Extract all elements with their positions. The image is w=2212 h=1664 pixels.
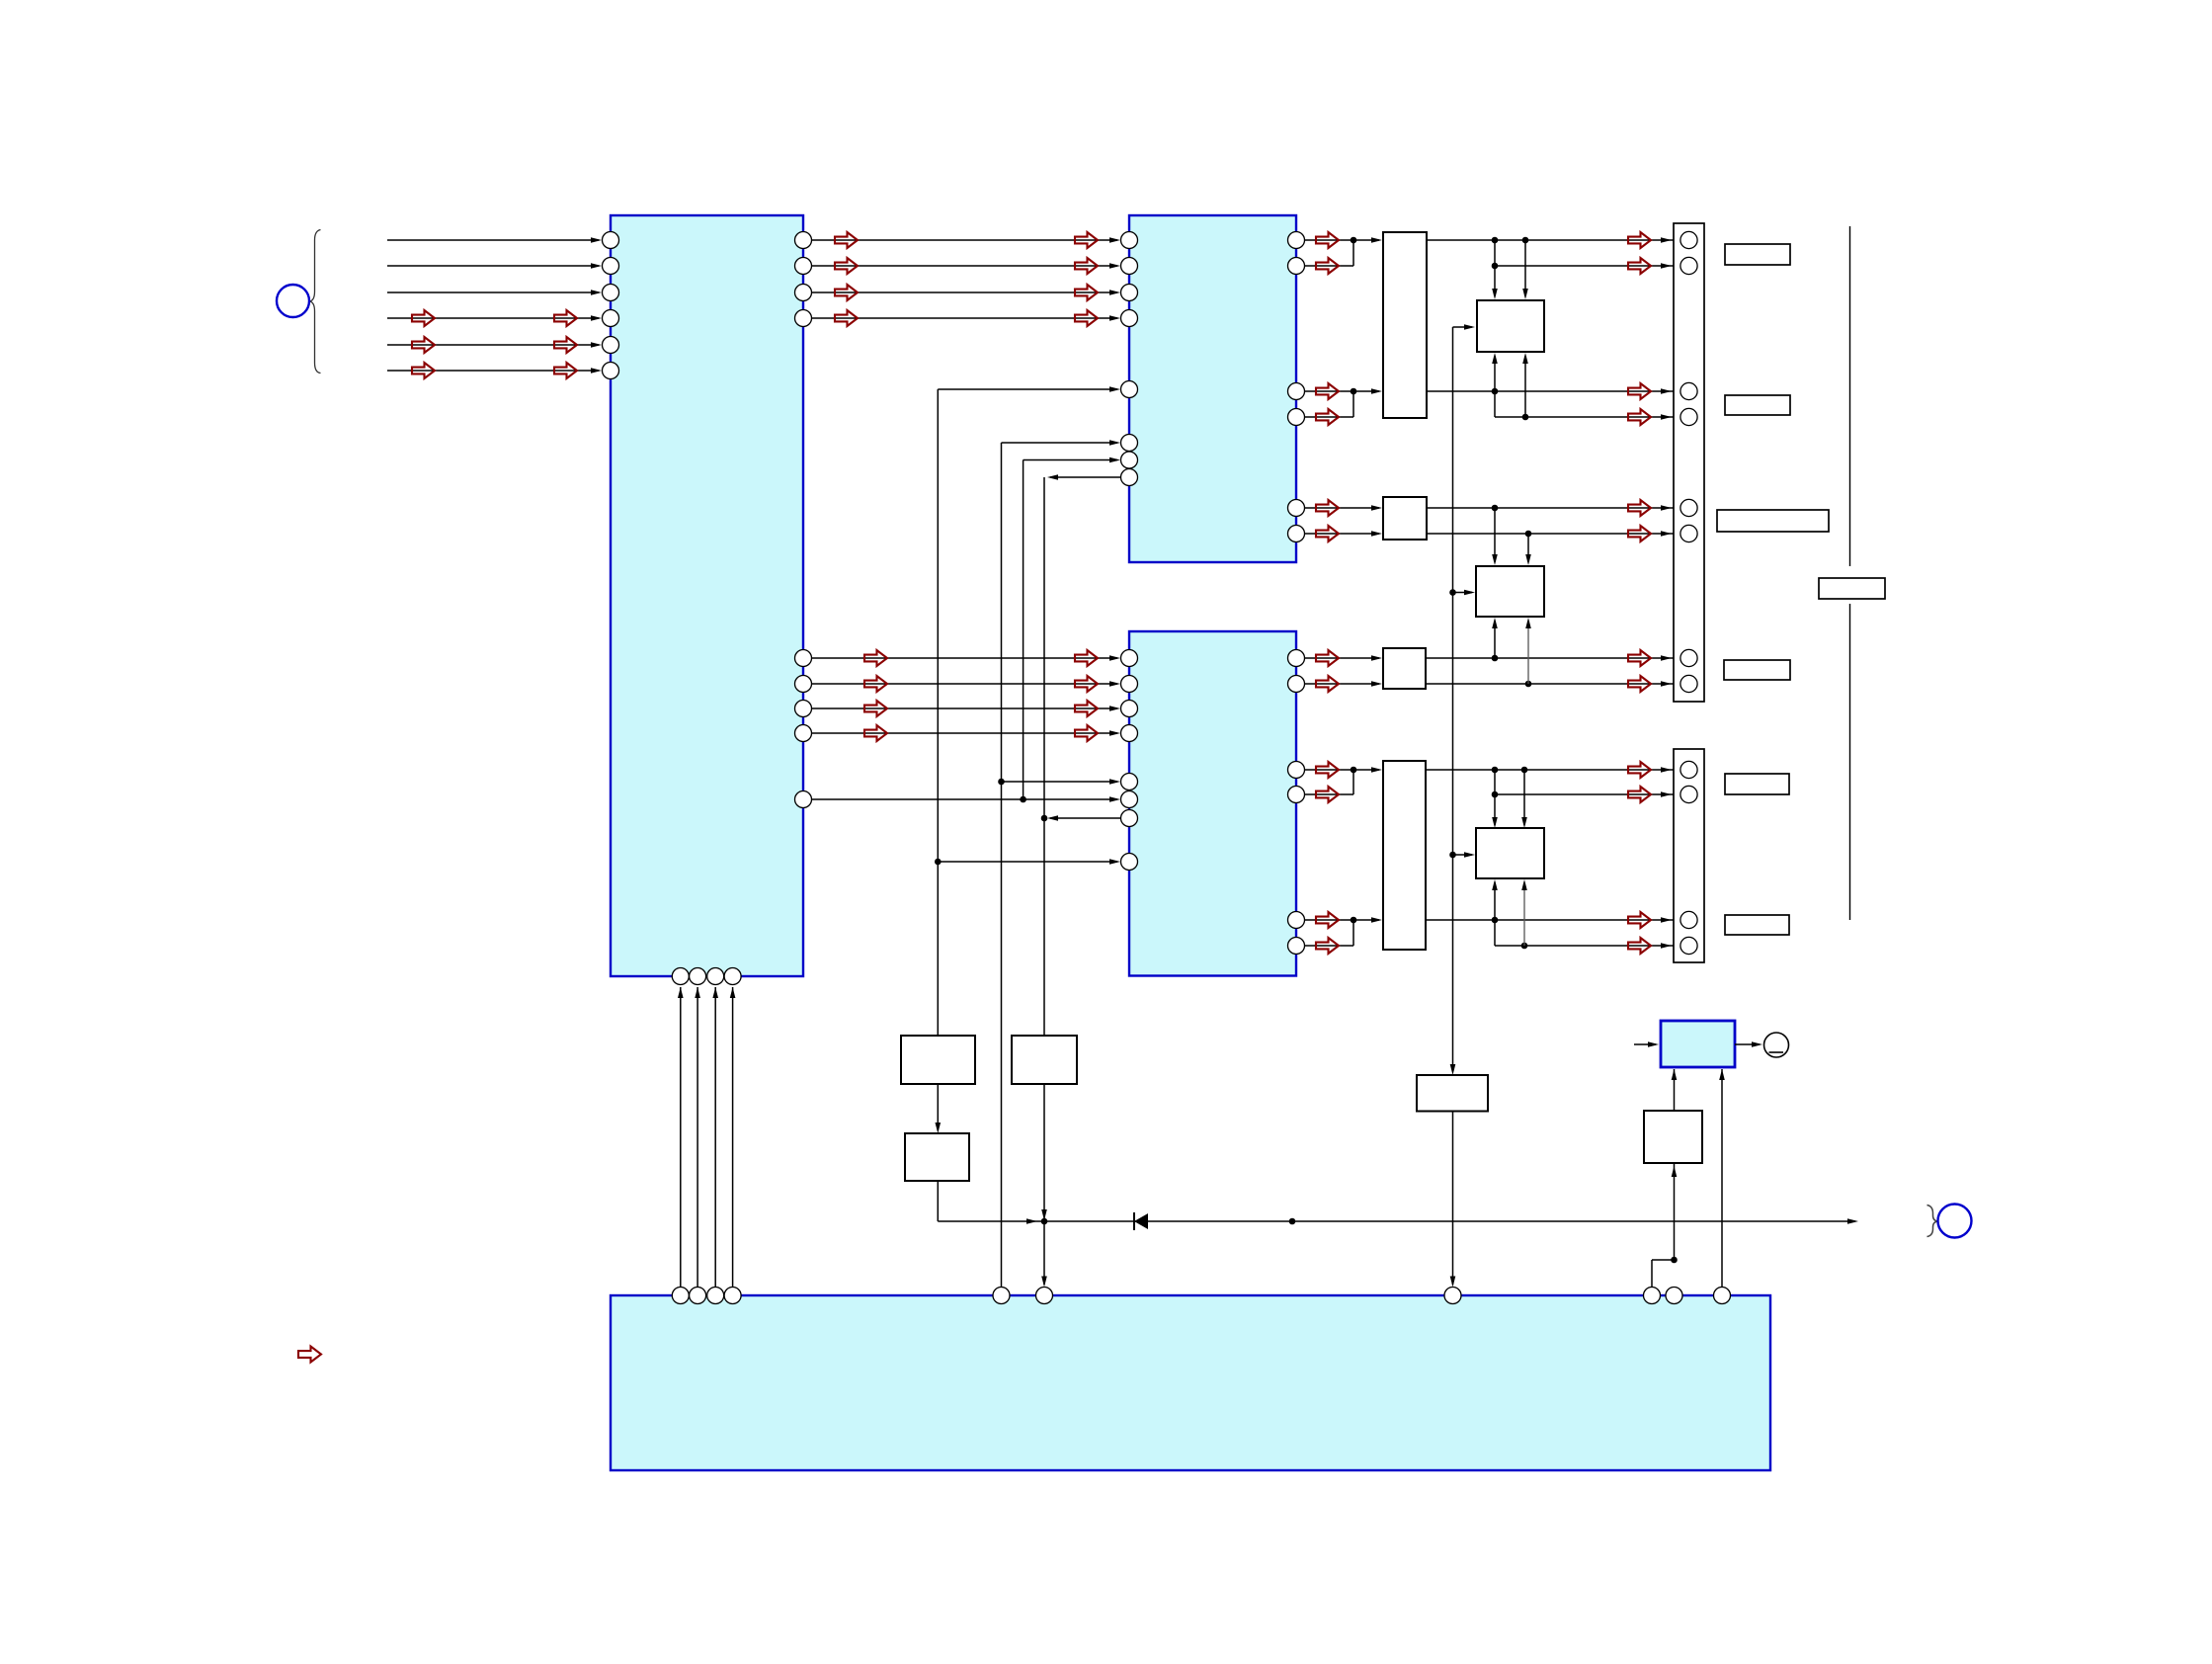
- IC1 bottom pin B4: [724, 968, 741, 985]
- signal arrow M1 col1: [864, 650, 887, 666]
- arrowhead X1470 bottom: [1450, 1277, 1456, 1288]
- wire ch1a to driver1: [1305, 239, 1380, 241]
- page connector circle (output): [1938, 1205, 1972, 1238]
- signal arrow T1 col1: [835, 232, 858, 248]
- arrowhead into box10: [1450, 1064, 1456, 1075]
- signal arrow M1 col2: [1075, 650, 1098, 666]
- wire ch3b to box3: [1305, 533, 1380, 535]
- wire X949 horizontal to IC2: [938, 388, 1117, 390]
- IC2 input pin T4: [1121, 310, 1138, 327]
- IC3 output pin ch4a: [1288, 650, 1305, 667]
- CN2 terminal 1: [1680, 761, 1697, 778]
- IC2 output pin ch2a: [1288, 383, 1305, 400]
- IC3 output pin ch5a: [1288, 762, 1305, 779]
- IC2 side pin 394: [1121, 381, 1138, 398]
- wire regulator to indicator: [1735, 1043, 1760, 1045]
- wire X1013 vertical: [1001, 443, 1003, 1288]
- indicator circle: [1764, 1033, 1789, 1057]
- IC1 input pin 4: [603, 310, 619, 327]
- signal arrow M3 col2: [1075, 701, 1098, 716]
- IC1 bottom pin B1: [672, 968, 689, 985]
- IC3 output pin ch5b: [1288, 787, 1305, 803]
- junction dot X1470/599: [1449, 589, 1456, 596]
- wire IC1 to IC3 M4: [812, 732, 1118, 734]
- wire X1470 vertical rail lower: [1452, 1112, 1454, 1286]
- speaker connector CN1: [1674, 223, 1704, 702]
- tap wire ch2 xb up: [1524, 356, 1526, 417]
- wire stub into regulator: [1634, 1043, 1656, 1045]
- diode D1 on y1236: [1133, 1212, 1135, 1230]
- IC3 input pin M2: [1121, 676, 1138, 693]
- input signal arrow 5 col1: [412, 337, 435, 353]
- junction dot ch5a t2: [1521, 767, 1528, 774]
- block box7: [1012, 1036, 1077, 1084]
- wire X1057 to power block: [1043, 1221, 1045, 1285]
- input wire 4: [387, 317, 599, 319]
- wire ch5b merge: [1305, 793, 1354, 795]
- junction dot X1057/828: [1041, 815, 1048, 822]
- wire ch3a to box3: [1305, 507, 1380, 509]
- CN1 terminal 8: [1680, 675, 1697, 692]
- signal arrow ch6a: [1316, 912, 1339, 928]
- tap wire ch4 xb up: [1527, 621, 1529, 684]
- IC1 input pin 1: [603, 232, 619, 249]
- input wire 2: [387, 265, 599, 267]
- tap wire ch1 xa down: [1494, 240, 1496, 296]
- wire ch6b out: [1495, 945, 1680, 947]
- signal arrow ch6b out: [1628, 938, 1651, 954]
- wire box9 down: [1674, 1163, 1676, 1260]
- wire X1470 into box1: [1453, 326, 1473, 328]
- junction dot ch5b start: [1492, 791, 1499, 798]
- signal arrow T3 col1: [835, 285, 858, 300]
- signal arrow ch3a out: [1628, 500, 1651, 516]
- input group brace: [309, 230, 321, 374]
- CN1 terminal 1: [1680, 231, 1697, 248]
- junction dot ch1a t1: [1492, 237, 1499, 244]
- power block terminal X1013: [993, 1288, 1010, 1304]
- filter box3: [1383, 497, 1427, 540]
- junction dot ch4b: [1525, 681, 1532, 688]
- wire IC1 to IC2 T3: [812, 291, 1118, 293]
- IC1 output pin T3: [795, 285, 812, 301]
- signal arrow ch1b out: [1628, 258, 1651, 274]
- wire IC1 to IC3 M1: [812, 657, 1118, 659]
- tap wire ch3 xa down: [1494, 508, 1496, 562]
- signal arrow ch4a out: [1628, 650, 1651, 666]
- wire jog to second terminal: [1652, 1259, 1675, 1261]
- wire to IC3 pin 791: [1002, 781, 1118, 783]
- IC2 side pin 465: [1121, 452, 1138, 468]
- IC2 input pin T1: [1121, 232, 1138, 249]
- power block terminal X1694: [1666, 1288, 1682, 1304]
- wire D1 out ch2a: [1427, 390, 1680, 392]
- CN2 terminal 2: [1680, 786, 1697, 802]
- signal arrow T4 col1: [835, 310, 858, 326]
- wire IC1 to IC3 M2: [812, 683, 1118, 685]
- IC3 side pin 828: [1121, 810, 1138, 827]
- junction dot ch4a: [1492, 655, 1499, 662]
- bottom long wire y1236: [938, 1220, 1855, 1222]
- junction dot ch3b: [1525, 531, 1532, 538]
- supply wire B4: [732, 987, 734, 1288]
- signal arrow ch1a out: [1628, 232, 1651, 248]
- IC3 output pin ch4b: [1288, 676, 1305, 693]
- speaker connector CN2: [1674, 749, 1704, 962]
- tap wire ch6 xb up: [1523, 882, 1525, 946]
- input wire 6: [387, 370, 599, 372]
- indicator dash: [1769, 1051, 1784, 1053]
- wire ch1b out: [1495, 265, 1680, 267]
- junction dot ch2a t1: [1492, 388, 1499, 395]
- wire ch2b out: [1495, 416, 1680, 418]
- standalone signal arrow: [298, 1347, 321, 1363]
- IC3 input pin M3: [1121, 701, 1138, 717]
- wire IC1 to IC2 T1: [812, 239, 1118, 241]
- label box ch6: [1725, 915, 1789, 935]
- CN1 terminal 4: [1680, 408, 1697, 425]
- wire ch6a to driver2: [1305, 919, 1380, 921]
- input signal arrow 4 col1: [412, 310, 435, 326]
- wire IC1 to IC3 M3: [812, 707, 1118, 709]
- signal arrow ch2b: [1316, 409, 1339, 425]
- junction dot X949/872: [935, 859, 942, 866]
- IC1 main DSP block: [611, 215, 803, 976]
- junction dot ch6b t2: [1521, 943, 1528, 950]
- IC3 side pin 872: [1121, 854, 1138, 871]
- wire box3 out ch3b: [1427, 533, 1680, 535]
- signal arrow ch3a: [1316, 500, 1339, 516]
- signal arrow M2 col1: [864, 676, 887, 692]
- wire X949 vertical: [937, 389, 939, 1036]
- IC2 input pin T2: [1121, 258, 1138, 275]
- signal arrow M4 col1: [864, 725, 887, 741]
- wire IC2 483 to X1057: [1050, 476, 1121, 478]
- page connector circle (input): [277, 285, 309, 317]
- wire ch6b merge: [1305, 945, 1354, 947]
- signal arrow ch2a out: [1628, 383, 1651, 399]
- power block terminal X1057: [1036, 1288, 1053, 1304]
- speaker bus line lower: [1849, 604, 1851, 920]
- IC2 output pin ch3a: [1288, 500, 1305, 517]
- wire ch4b to box4: [1305, 683, 1380, 685]
- CN1 terminal 6: [1680, 525, 1697, 541]
- IC2 PWM processor block: [1129, 215, 1296, 562]
- block box9: [1644, 1111, 1702, 1163]
- tap wire ch3 xb down: [1527, 534, 1529, 562]
- wire box4 out ch4b: [1426, 683, 1680, 685]
- power block terminal X1470: [1444, 1288, 1461, 1304]
- wire box8 down: [937, 1181, 939, 1221]
- supply wire B3: [714, 987, 716, 1288]
- IC1 output pin S1: [795, 791, 812, 808]
- IC1 input pin 2: [603, 258, 619, 275]
- tap wire ch2 xa up: [1494, 356, 1496, 391]
- wire box9 to regulator: [1674, 1069, 1676, 1111]
- supply wire B1: [680, 987, 682, 1288]
- wire box3 out ch3a: [1427, 507, 1680, 509]
- small regulator block: [1661, 1021, 1735, 1067]
- IC2 output pin ch1a: [1288, 232, 1305, 249]
- wire box6 to box8: [937, 1084, 939, 1130]
- wire IC3 828 to X1057: [1050, 817, 1121, 819]
- wire ch4a to box4: [1305, 657, 1380, 659]
- junction dot ch2 merge: [1351, 388, 1357, 395]
- IC1 bottom pin B2: [690, 968, 706, 985]
- power stage box2: [1476, 566, 1544, 617]
- IC1 output pin T2: [795, 258, 812, 275]
- junction dot y1236/X1308: [1289, 1218, 1296, 1225]
- signal arrow ch5a: [1316, 762, 1339, 778]
- wire X1743 vertical: [1721, 1069, 1723, 1288]
- IC2 side pin 483: [1121, 469, 1138, 486]
- driver block D2: [1383, 761, 1426, 950]
- signal arrow M4 col2: [1075, 725, 1098, 741]
- signal arrow ch3b: [1316, 526, 1339, 541]
- signal arrow ch4b out: [1628, 676, 1651, 692]
- IC1 output pin M2: [795, 676, 812, 693]
- input signal arrow 6 col1: [412, 363, 435, 378]
- block box8: [905, 1133, 969, 1181]
- signal arrow ch3b out: [1628, 526, 1651, 541]
- signal arrow M2 col2: [1075, 676, 1098, 692]
- IC2 output pin ch3b: [1288, 526, 1305, 542]
- wire X1057 vertical upper: [1043, 477, 1045, 1036]
- tap wire ch6 xa down corner: [1494, 920, 1496, 946]
- tap wire ch2 xa down corner: [1494, 391, 1496, 417]
- junction dot ch2b t2: [1522, 414, 1529, 421]
- signal arrow ch5a out: [1628, 762, 1651, 778]
- IC1 output pin M3: [795, 701, 812, 717]
- signal arrow ch2a: [1316, 383, 1339, 399]
- signal arrow ch5b: [1316, 787, 1339, 802]
- signal arrow T1 col2: [1075, 232, 1098, 248]
- bottom power-supply block: [611, 1295, 1770, 1470]
- tap wire ch6 xa up: [1494, 882, 1496, 920]
- input wire 5: [387, 344, 599, 346]
- junction dot X1694/1275: [1671, 1257, 1678, 1264]
- CN2 terminal 4: [1680, 937, 1697, 954]
- speaker bus line upper: [1849, 226, 1851, 566]
- wire ch5a to driver2: [1305, 769, 1380, 771]
- IC3 side pin 791: [1121, 774, 1138, 790]
- wire ch2b merge: [1305, 416, 1354, 418]
- IC2 output pin ch2b: [1288, 409, 1305, 426]
- junction dot X1470/865: [1449, 852, 1456, 859]
- wire D1 out ch1a: [1427, 239, 1680, 241]
- CN1 terminal 2: [1680, 257, 1697, 274]
- signal arrow ch2b out: [1628, 409, 1651, 425]
- power block terminal B3: [707, 1288, 724, 1304]
- IC1 output pin M4: [795, 725, 812, 742]
- wire IC1 to IC3 S1: [812, 798, 1118, 800]
- junction dot ch6 merge: [1351, 917, 1357, 924]
- IC3 output pin ch6a: [1288, 912, 1305, 929]
- wire X1470 into box5: [1453, 854, 1473, 856]
- IC1 bottom pin B3: [707, 968, 724, 985]
- power block terminal B2: [690, 1288, 706, 1304]
- IC3 input pin S1: [1121, 791, 1138, 808]
- signal arrow ch6b: [1316, 938, 1339, 954]
- junction dot ch1a t2: [1522, 237, 1529, 244]
- IC3 input pin M1: [1121, 650, 1138, 667]
- power stage box5: [1476, 828, 1544, 878]
- IC2 output pin ch1b: [1288, 258, 1305, 275]
- wire box4 out ch4a: [1426, 657, 1680, 659]
- signal arrow ch6a out: [1628, 912, 1651, 928]
- filter box4: [1383, 648, 1426, 689]
- IC3 PWM processor block: [1129, 631, 1296, 976]
- signal arrow M3 col1: [864, 701, 887, 716]
- CN2 terminal 3: [1680, 911, 1697, 928]
- input signal arrow 6 col2: [554, 363, 577, 378]
- block box10 on X1470 rail: [1417, 1075, 1488, 1112]
- tap wire ch4 xa up: [1494, 621, 1496, 658]
- wire X1470 into box2: [1453, 592, 1473, 594]
- signal arrow ch5b out: [1628, 787, 1651, 802]
- power stage box1: [1477, 300, 1544, 352]
- junction dot ch1b start: [1492, 263, 1499, 270]
- wire X1036 horizontal to IC2: [1024, 459, 1117, 461]
- tap wire ch1 xb down: [1524, 240, 1526, 296]
- IC1 output pin M1: [795, 650, 812, 667]
- CN1 terminal 5: [1680, 499, 1697, 516]
- signal arrow ch1a: [1316, 232, 1339, 248]
- signal arrow ch4a: [1316, 650, 1339, 666]
- IC2 side pin 448: [1121, 435, 1138, 452]
- wire ch2a to driver1: [1305, 390, 1380, 392]
- driver block D1: [1383, 232, 1427, 418]
- wire ch1b merge: [1305, 265, 1354, 267]
- signal arrow T4 col2: [1075, 310, 1098, 326]
- junction dot ch1 merge: [1351, 237, 1357, 244]
- wire IC1 to IC2 T2: [812, 265, 1118, 267]
- junction dot ch5 merge: [1351, 767, 1357, 774]
- wire to IC3 pin 872: [938, 861, 1117, 863]
- label box ch1: [1725, 244, 1790, 265]
- IC1 input pin 6: [603, 363, 619, 379]
- CN1 terminal 3: [1680, 382, 1697, 399]
- wire X1057 vertical lower: [1043, 1084, 1045, 1218]
- wire IC1 to IC2 T4: [812, 317, 1118, 319]
- wire X1013 horizontal to IC2: [1002, 442, 1118, 444]
- tap wire ch5 xa down: [1494, 770, 1496, 825]
- wire D2 out ch5a: [1426, 769, 1680, 771]
- power block terminal X1672: [1644, 1288, 1661, 1304]
- power block terminal B1: [672, 1288, 689, 1304]
- IC2 input pin T3: [1121, 285, 1138, 301]
- signal arrow T2 col1: [835, 258, 858, 274]
- junction dot ch6a t1: [1492, 917, 1499, 924]
- junction dot y1236/X1057: [1041, 1218, 1048, 1225]
- IC1 output pin T1: [795, 232, 812, 249]
- junction dot S1/X1036: [1020, 796, 1026, 803]
- input wire 1: [387, 239, 599, 241]
- signal arrow T3 col2: [1075, 285, 1098, 300]
- IC1 output pin T4: [795, 310, 812, 327]
- junction dot ch5a t1: [1492, 767, 1499, 774]
- wire ch5b out: [1495, 793, 1680, 795]
- signal arrow ch1b: [1316, 258, 1339, 274]
- power block terminal B4: [724, 1288, 741, 1304]
- IC3 output pin ch6b: [1288, 938, 1305, 955]
- CN1 terminal 7: [1680, 649, 1697, 666]
- output group brace: [1927, 1206, 1938, 1237]
- wire X1470 vertical rail upper: [1452, 327, 1454, 1071]
- supply wire B2: [696, 987, 698, 1288]
- input signal arrow 4 col2: [554, 310, 577, 326]
- signal arrow T2 col2: [1075, 258, 1098, 274]
- IC1 input pin 3: [603, 285, 619, 301]
- junction dot ch3a: [1492, 505, 1499, 512]
- IC1 input pin 5: [603, 337, 619, 354]
- arrowhead end of y1236: [1847, 1218, 1858, 1224]
- wire X1036 vertical: [1023, 460, 1024, 800]
- speaker bus label box: [1819, 578, 1885, 599]
- block mute/protect box6: [901, 1036, 975, 1084]
- wire D2 out ch6a: [1426, 919, 1680, 921]
- input wire 3: [387, 291, 599, 293]
- label box ch2: [1725, 395, 1790, 415]
- power block terminal X1743: [1714, 1288, 1731, 1304]
- junction dot X1013/791: [998, 779, 1005, 786]
- signal arrow ch4b: [1316, 676, 1339, 692]
- IC3 input pin M4: [1121, 725, 1138, 742]
- label box ch3: [1717, 510, 1829, 532]
- input signal arrow 5 col2: [554, 337, 577, 353]
- label box ch4: [1724, 660, 1790, 680]
- label box ch5: [1725, 774, 1789, 794]
- tap wire ch5 xb down: [1523, 770, 1525, 825]
